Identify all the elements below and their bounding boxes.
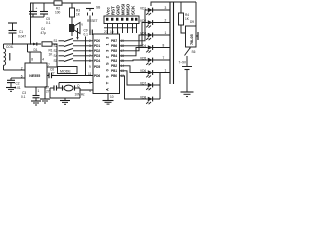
svg-text:PB3: PB3 xyxy=(111,59,117,63)
svg-text:2: 2 xyxy=(21,67,23,71)
svg-text:0.1: 0.1 xyxy=(46,21,51,25)
svg-text:1: 1 xyxy=(38,89,40,93)
NE555 U1 xyxy=(25,63,47,87)
label MODE xyxy=(58,67,78,74)
svg-text:PB5: PB5 xyxy=(111,49,117,53)
svg-text:VD6: VD6 xyxy=(140,69,146,73)
crystal circuit wire XTAL1 xyxy=(59,83,93,89)
svg-text:PD1: PD1 xyxy=(94,44,100,48)
svg-text:5: 5 xyxy=(89,81,91,85)
wire top-left rail xyxy=(31,3,92,44)
svg-text:47μ: 47μ xyxy=(41,31,47,35)
svg-text:D1: D1 xyxy=(34,48,38,52)
wire top-right rail xyxy=(151,2,196,6)
svg-text:VD4: VD4 xyxy=(140,44,146,48)
NE555 top pins xyxy=(28,44,45,63)
regulator 78L05 xyxy=(186,2,197,47)
svg-text:PD2: PD2 xyxy=(94,49,100,53)
MCU left pin numbers xyxy=(88,39,92,93)
svg-text:20: 20 xyxy=(104,30,108,34)
svg-text:NE555: NE555 xyxy=(29,74,40,78)
svg-text:8: 8 xyxy=(31,58,33,62)
svg-text:1: 1 xyxy=(117,30,119,34)
ground battery xyxy=(181,92,194,97)
svg-text:SB: SB xyxy=(96,6,100,10)
resistor R2 xyxy=(54,1,62,15)
ground rail crystal xyxy=(50,90,80,104)
svg-text:PB0: PB0 xyxy=(111,74,117,78)
svg-text:VD3: VD3 xyxy=(140,32,146,36)
svg-text:7: 7 xyxy=(163,56,165,60)
MCU right pin numbers xyxy=(121,39,125,78)
svg-text:10: 10 xyxy=(110,30,114,34)
diode D1 xyxy=(33,42,38,52)
speaker Y xyxy=(69,17,84,40)
LED VD4 xyxy=(140,44,153,53)
NE555 left pin 6 xyxy=(11,75,25,79)
svg-text:100: 100 xyxy=(55,10,61,14)
svg-text:MODE: MODE xyxy=(60,69,71,73)
capacitor C4 xyxy=(29,3,46,35)
capacitor C1 xyxy=(9,30,27,44)
svg-text:+: + xyxy=(36,7,38,11)
label D9 xyxy=(190,20,194,24)
resistor R4 xyxy=(179,2,190,33)
MCU ground pin 10 xyxy=(103,94,114,105)
NE555 bottom pin 1 xyxy=(36,87,40,95)
capacitor C5 xyxy=(40,3,51,25)
connector X2 xyxy=(170,2,174,84)
svg-text:C1: C1 xyxy=(19,30,23,34)
svg-text:VD7: VD7 xyxy=(140,82,146,86)
svg-text:PD5: PD5 xyxy=(94,65,100,69)
LED VD5 xyxy=(140,57,153,66)
MCU right pin labels xyxy=(111,39,117,78)
svg-text:10: 10 xyxy=(110,95,114,99)
svg-text:7~9V: 7~9V xyxy=(179,61,187,65)
svg-text:0.1: 0.1 xyxy=(84,32,89,36)
NE555 right pins xyxy=(47,63,57,76)
wire caps common xyxy=(30,17,44,45)
svg-text:S6: S6 xyxy=(192,50,196,54)
ISP header X1 xyxy=(104,16,139,24)
svg-text:S1: S1 xyxy=(54,39,58,43)
switch S2 xyxy=(54,44,94,49)
svg-text:VD8: VD8 xyxy=(140,96,146,100)
svg-text:2: 2 xyxy=(165,19,167,23)
svg-text:PB2: PB2 xyxy=(111,64,117,68)
ground under C2 xyxy=(6,88,16,92)
capacitor C9 xyxy=(84,29,93,37)
svg-text:8: 8 xyxy=(163,44,165,48)
NE555 left pin 2 xyxy=(13,67,26,71)
svg-text:SCK: SCK xyxy=(130,5,135,15)
MCU U2 AT90S2313 xyxy=(93,34,120,94)
svg-text:AT90S2313: AT90S2313 xyxy=(105,36,110,91)
svg-text:PD3: PD3 xyxy=(94,54,100,58)
LED VD7 xyxy=(140,82,153,91)
inductor COIL xyxy=(4,43,14,70)
wire detector node xyxy=(13,43,42,45)
wire switch common bus xyxy=(85,37,87,76)
crystal Q 10MHz xyxy=(63,84,94,97)
switch S5 xyxy=(54,59,94,64)
svg-text:VD5: VD5 xyxy=(140,57,146,61)
svg-text:PB4: PB4 xyxy=(111,54,117,58)
svg-text:27: 27 xyxy=(46,90,50,94)
LED VD1 xyxy=(140,7,153,16)
battery GB 7~9V xyxy=(179,61,193,93)
capacitor C2 xyxy=(7,78,21,90)
resistor R1 xyxy=(42,42,57,67)
switch S3 xyxy=(54,49,94,54)
svg-text:PD6: PD6 xyxy=(94,74,100,78)
svg-text:PB1: PB1 xyxy=(111,69,117,73)
capacitor C7 xyxy=(45,85,63,98)
switch S4 xyxy=(54,54,94,59)
LED VD3 xyxy=(140,32,153,41)
svg-text:7: 7 xyxy=(48,63,50,67)
antenna input bar xyxy=(8,23,17,30)
svg-text:VD1: VD1 xyxy=(140,7,146,11)
LED fanout wires xyxy=(120,10,148,99)
header pin labels xyxy=(105,3,135,15)
svg-text:PD4: PD4 xyxy=(94,59,100,63)
header stubs xyxy=(104,24,137,35)
svg-text:3: 3 xyxy=(165,6,167,10)
svg-text:6: 6 xyxy=(21,75,23,79)
wires LEDs to connector xyxy=(153,6,170,99)
svg-text:PB7: PB7 xyxy=(111,39,117,43)
svg-text:RESET: RESET xyxy=(87,19,98,23)
switch S1 xyxy=(54,39,94,44)
pushbutton SB RESET xyxy=(86,6,100,33)
svg-text:VD2: VD2 xyxy=(140,19,146,23)
svg-text:9: 9 xyxy=(89,65,91,69)
MCU left pin labels xyxy=(94,39,100,78)
svg-text:0.1: 0.1 xyxy=(21,95,26,99)
switch S6 xyxy=(185,47,196,66)
svg-text:COIL: COIL xyxy=(6,45,14,49)
ground under C3 xyxy=(31,101,41,105)
svg-text:D9: D9 xyxy=(190,20,194,24)
svg-text:1: 1 xyxy=(165,69,167,73)
svg-text:1: 1 xyxy=(165,31,167,35)
svg-text:PB6: PB6 xyxy=(111,44,117,48)
capacitor C6 xyxy=(49,68,55,79)
capacitor right of regulator xyxy=(196,32,198,40)
wire NE555 out to MCU xyxy=(47,75,93,77)
ground right of C3 xyxy=(40,87,50,103)
LED VD8 xyxy=(140,96,153,105)
LED VD6 xyxy=(140,69,153,78)
svg-text:0.047: 0.047 xyxy=(18,35,26,39)
resistor R3 xyxy=(70,3,81,17)
svg-text:78L05: 78L05 xyxy=(190,34,194,45)
LED VD2 xyxy=(140,19,153,28)
svg-text:4: 4 xyxy=(42,58,44,62)
capacitor C3 xyxy=(21,91,40,101)
svg-text:PD0: PD0 xyxy=(94,39,100,43)
